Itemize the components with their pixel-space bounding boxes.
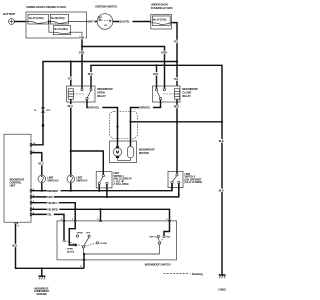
svg-text:MOTOR: MOTOR bbox=[139, 151, 149, 155]
node motor right wire bbox=[129, 121, 131, 123]
wire BLU control unit to limit switch 3 bbox=[31, 153, 45, 176]
pin 3 wire YEL to switch bbox=[30, 213, 64, 221]
svg-text:YEL/BLU: YEL/BLU bbox=[47, 202, 58, 205]
svg-text:UNDER-DASH: UNDER-DASH bbox=[151, 3, 168, 7]
wire BLU branch to limit switch 1 bbox=[71, 151, 104, 175]
svg-text:OFF: OFF bbox=[86, 233, 91, 235]
svg-text:RED: RED bbox=[174, 106, 179, 109]
wire BLK label right side bbox=[219, 139, 226, 142]
svg-text:OPEN: OPEN bbox=[77, 233, 83, 235]
wire limit switch 4 to RED/WHT rail bbox=[70, 183, 72, 191]
svg-text:UNDER-HOOD FUSE/RELAY BOX: UNDER-HOOD FUSE/RELAY BOX bbox=[26, 5, 66, 9]
svg-text:BLU: BLU bbox=[68, 105, 73, 108]
pin 4 wire to ground line bbox=[80, 254, 84, 268]
wire GRY/YEL open relay to motor bbox=[87, 100, 118, 147]
svg-text:GRN: GRN bbox=[47, 196, 53, 199]
BLK rail to ground bbox=[91, 65, 222, 274]
node ls1 left tap bbox=[98, 190, 100, 192]
svg-text:BLU: BLU bbox=[39, 163, 44, 166]
svg-text:M: M bbox=[116, 150, 120, 155]
svg-text:MOONROOF: MOONROOF bbox=[182, 87, 198, 91]
wire limit switch 2 left to RED/WHT rail bbox=[171, 184, 173, 191]
wire BLK/YEL ignition to under-dash box bbox=[113, 20, 151, 24]
under-hood fuse/relay box bbox=[26, 5, 87, 38]
node close relay BLK tap bbox=[155, 64, 157, 66]
shielding around motor wires bbox=[110, 112, 138, 139]
svg-text:YEL: YEL bbox=[174, 78, 179, 81]
svg-text:BLK: BLK bbox=[153, 73, 158, 76]
svg-text:CLOSE: CLOSE bbox=[182, 91, 191, 95]
wire limit switch 1 right to GRN rail bbox=[106, 185, 108, 197]
pin 10 bbox=[30, 143, 36, 146]
limit switch 2 bbox=[168, 171, 202, 187]
svg-text:(AUTO): (AUTO) bbox=[67, 250, 75, 253]
svg-text:RED/WHT: RED/WHT bbox=[47, 190, 59, 193]
junction node bbox=[48, 21, 50, 23]
svg-text:GRN: GRN bbox=[79, 37, 85, 40]
node YEL rail joins bbox=[176, 60, 178, 62]
svg-text:No.57 (20A): No.57 (20A) bbox=[54, 28, 67, 31]
wire limit switch 2 right to GRN rail bbox=[178, 184, 180, 197]
wire motor right terminal to limit switch 2 bbox=[131, 121, 223, 123]
fuse No.58 (50A) bbox=[49, 14, 87, 24]
limit switch 3 bbox=[38, 175, 59, 183]
svg-text:IGNITION SWITCH: IGNITION SWITCH bbox=[95, 5, 117, 9]
ignition switch bbox=[95, 5, 117, 30]
moonroof switch box bbox=[57, 221, 177, 267]
shielding legend bbox=[164, 273, 204, 276]
svg-text:YEL: YEL bbox=[174, 41, 179, 44]
wire YEL to open relay coil bbox=[67, 62, 74, 87]
node shield drain to RED bbox=[176, 121, 178, 123]
svg-text:: Shielding: : Shielding bbox=[191, 273, 204, 276]
svg-text:WHT: WHT bbox=[88, 20, 94, 23]
wire to control unit ground bbox=[41, 268, 43, 276]
pin 2 wire YEL/RED to switch bbox=[30, 208, 169, 221]
limit switch 1 bbox=[96, 172, 132, 188]
svg-text:RELAY: RELAY bbox=[97, 94, 106, 98]
limit switch 4 bbox=[67, 175, 88, 183]
ground G602 bbox=[218, 275, 226, 292]
svg-text:BLK/YEL: BLK/YEL bbox=[119, 20, 130, 23]
svg-text:SWITCH 1: SWITCH 1 bbox=[113, 176, 124, 178]
node GRN branch bbox=[81, 45, 83, 47]
pin 8 wire BLK ground bbox=[12, 222, 84, 268]
svg-text:GRN: GRN bbox=[79, 52, 85, 55]
wire to switch pin 5 bbox=[100, 209, 102, 221]
svg-text:LIMIT: LIMIT bbox=[113, 173, 119, 175]
svg-text:BLK: BLK bbox=[88, 73, 93, 76]
svg-text:BLK: BLK bbox=[219, 189, 224, 192]
svg-text:1: TILT UP: 1: TILT UP bbox=[113, 181, 124, 183]
wire BLU open relay coil to limit switches bbox=[67, 99, 74, 151]
wire GRN from fuse 57 down to open relay contact bbox=[79, 36, 86, 88]
ground moonroof control unit bbox=[34, 276, 50, 296]
pin 2 bbox=[166, 219, 170, 222]
node ls1 right tap bbox=[106, 196, 108, 198]
moonroof control unit bbox=[4, 134, 31, 222]
wire switch common link bbox=[84, 253, 160, 255]
svg-text:GRN: GRN bbox=[161, 52, 167, 55]
node motor left wire bbox=[116, 125, 118, 127]
node ground tap bbox=[41, 267, 43, 269]
svg-text:SWITCH 3: SWITCH 3 bbox=[47, 180, 59, 183]
YEL rail bbox=[31, 62, 177, 145]
node ls4 tap bbox=[70, 190, 72, 192]
node switch pin 5 tap bbox=[99, 208, 101, 210]
wire BLK to close relay contact bbox=[153, 65, 160, 88]
wire RED close relay coil to limit switch 2 bbox=[174, 99, 181, 173]
svg-text:MOONROOF: MOONROOF bbox=[97, 87, 113, 91]
svg-text:YEL/RED: YEL/RED bbox=[47, 208, 58, 211]
svg-text:RELAY: RELAY bbox=[182, 94, 191, 98]
connector C577 on YEL feed bbox=[34, 108, 51, 113]
svg-text:BLK: BLK bbox=[219, 140, 224, 143]
wire GRN/YEL close relay to motor bbox=[131, 100, 161, 147]
svg-text:BATTERY: BATTERY bbox=[3, 12, 15, 16]
svg-text:TILT: TILT bbox=[166, 237, 171, 239]
under-dash fuse/relay box bbox=[151, 3, 173, 29]
svg-text:2: FULL OPEN: 2: FULL OPEN bbox=[113, 184, 128, 186]
wire GRN branch to close relay contact bbox=[82, 47, 168, 89]
svg-text:FUSE/RELAY BOX: FUSE/RELAY BOX bbox=[151, 6, 173, 10]
svg-text:No.14 (7.5A): No.14 (7.5A) bbox=[153, 19, 166, 22]
pin 6 wire RED/WHT rail bbox=[30, 184, 172, 193]
svg-text:UNIT: UNIT bbox=[10, 184, 16, 187]
tilt switch bbox=[149, 222, 171, 254]
splice bbox=[42, 124, 44, 126]
svg-text:OPEN: OPEN bbox=[97, 91, 105, 95]
svg-text:(ON: OPEN/NOT: (ON: OPEN/NOT bbox=[185, 179, 203, 181]
pin 3 bbox=[61, 219, 65, 222]
svg-text:G602: G602 bbox=[218, 288, 226, 292]
pin 1 wire YEL/BLU to switch bbox=[30, 201, 75, 221]
node open relay coil tap bbox=[70, 60, 72, 62]
battery bbox=[3, 12, 15, 24]
fuse No.14 (7.5A) bbox=[151, 16, 172, 25]
wire battery to under-hood fuse box bbox=[14, 21, 26, 23]
moonroof motor bbox=[110, 141, 156, 163]
open/close switch bbox=[63, 222, 108, 254]
fuse No.51 (100A) bbox=[26, 14, 48, 24]
svg-text:GROUND: GROUND bbox=[36, 293, 47, 296]
pin 1 bbox=[72, 219, 76, 222]
wire YEL from under-dash fuse down to close relay coil bbox=[172, 23, 181, 86]
node ls3 tap bbox=[41, 190, 43, 192]
svg-text:LIMIT: LIMIT bbox=[185, 174, 191, 176]
svg-text:OPEN: OPEN bbox=[67, 249, 73, 251]
pin 7 bbox=[30, 151, 35, 154]
svg-text:YEL: YEL bbox=[47, 214, 52, 217]
svg-text:CLOSE: CLOSE bbox=[100, 243, 108, 245]
svg-text:OFF·CL: OFF·CL bbox=[149, 237, 157, 239]
svg-text:YEL: YEL bbox=[68, 77, 73, 80]
svg-text:BLK: BLK bbox=[12, 245, 17, 248]
pin 5 bbox=[97, 219, 101, 222]
svg-text:MOONROOF SWITCH: MOONROOF SWITCH bbox=[145, 263, 171, 267]
pin 9 wire GRN rail bbox=[30, 184, 179, 200]
moonroof open relay bbox=[67, 86, 114, 102]
svg-text:(ON: CLOSED UP: (ON: CLOSED UP bbox=[113, 179, 132, 181]
svg-text:SWITCH 4: SWITCH 4 bbox=[76, 180, 88, 183]
svg-text:FULLY CLOSED): FULLY CLOSED) bbox=[185, 182, 203, 184]
svg-text:GRY/YEL: GRY/YEL bbox=[89, 107, 100, 110]
moonroof close relay bbox=[153, 86, 199, 102]
svg-text:MOONROOF: MOONROOF bbox=[139, 148, 155, 152]
wire BLU down to limit switch 4 bbox=[70, 151, 72, 175]
fuse No.57 (20A) branch bbox=[49, 22, 82, 39]
node BLU branch bbox=[70, 150, 72, 152]
wire limit switch 1 left to RED/WHT rail bbox=[98, 185, 100, 191]
wire limit switch 3 to RED/WHT rail bbox=[41, 183, 43, 191]
svg-text:GRN/YEL: GRN/YEL bbox=[140, 107, 151, 110]
svg-text:No.51 (100A): No.51 (100A) bbox=[29, 17, 44, 20]
wire WHT to ignition switch bbox=[87, 20, 98, 24]
node switch common bbox=[83, 253, 85, 255]
wire BLK label open relay side bbox=[88, 72, 95, 76]
svg-text:No.58 (50A): No.58 (50A) bbox=[51, 17, 64, 20]
svg-text:SWITCH 2: SWITCH 2 bbox=[185, 177, 196, 179]
